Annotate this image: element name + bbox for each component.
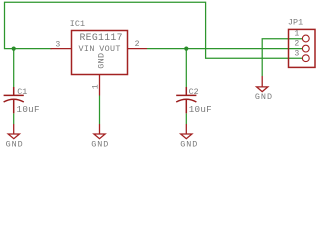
svg-text:GND: GND bbox=[6, 140, 24, 150]
svg-text:3: 3 bbox=[294, 50, 299, 59]
svg-text:GND: GND bbox=[180, 140, 198, 150]
svg-text:1: 1 bbox=[91, 84, 100, 89]
svg-text:C2: C2 bbox=[189, 87, 199, 97]
svg-text:10uF: 10uF bbox=[189, 104, 212, 115]
svg-text:GND: GND bbox=[91, 140, 109, 150]
svg-text:2: 2 bbox=[294, 40, 299, 49]
svg-text:IC1: IC1 bbox=[70, 19, 85, 29]
svg-text:JP1: JP1 bbox=[288, 18, 303, 28]
svg-text:GND: GND bbox=[255, 92, 273, 102]
svg-text:GND: GND bbox=[97, 53, 107, 69]
svg-text:VIN: VIN bbox=[79, 44, 95, 54]
svg-text:REG1117: REG1117 bbox=[80, 32, 123, 43]
svg-text:1: 1 bbox=[294, 30, 299, 39]
svg-text:3: 3 bbox=[55, 40, 60, 49]
svg-text:2: 2 bbox=[135, 40, 140, 49]
svg-text:C1: C1 bbox=[17, 87, 27, 97]
svg-text:10uF: 10uF bbox=[17, 104, 40, 115]
